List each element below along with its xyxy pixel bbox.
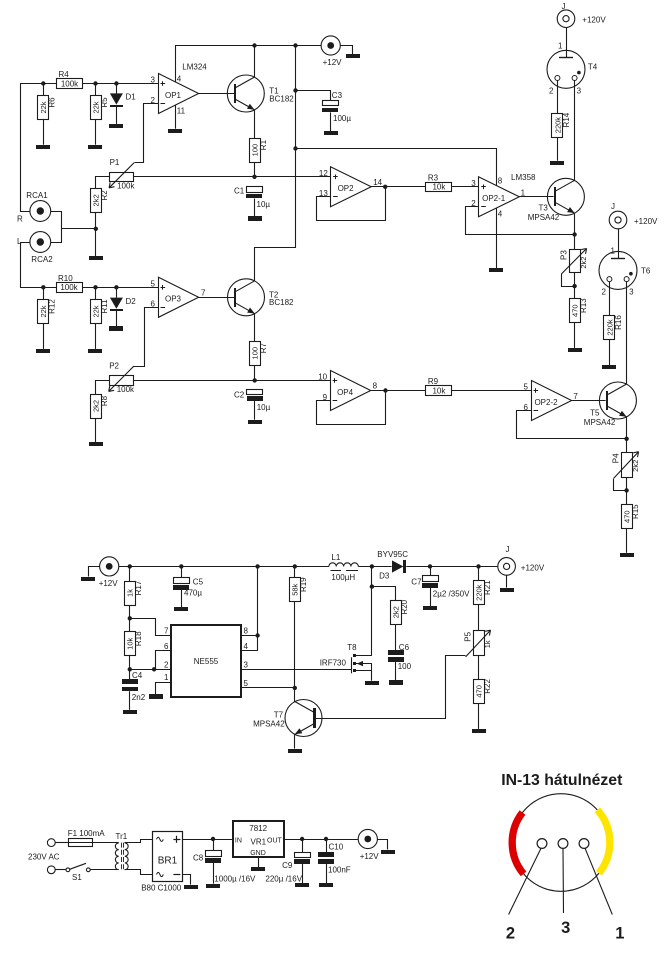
svg-text:J: J <box>611 202 615 211</box>
polarized capacitor C1 <box>246 187 263 199</box>
wire R9 to OP2-2 pin5 <box>452 390 531 392</box>
wire RCA2 shell drop <box>21 243 30 288</box>
junction R6 tap <box>41 81 45 85</box>
svg-text:1k: 1k <box>483 640 492 648</box>
wire OP2-2 feedback <box>517 411 627 439</box>
resistor R7 100 vertical <box>250 342 269 366</box>
op-amp OP1 (LM324) <box>159 74 199 114</box>
svg-text:1: 1 <box>611 247 616 256</box>
junction OP2 output <box>383 185 387 189</box>
nixie tube T4 (IN-13) <box>547 50 585 88</box>
wire P5 wiper to T7 base <box>316 656 466 719</box>
svg-text:+12V: +12V <box>99 579 119 588</box>
junction +12V rail to supply riser <box>293 43 297 47</box>
svg-text:OP1: OP1 <box>165 91 182 100</box>
wire OP2-1 feedback <box>466 207 575 235</box>
wire NE555 pin3 to T8 gate <box>241 669 351 671</box>
potentiometer P1 100k <box>109 158 135 191</box>
svg-text:3: 3 <box>471 179 476 188</box>
svg-text:LM324: LM324 <box>182 63 207 72</box>
connector RCA2 <box>30 232 51 253</box>
svg-text:B80 C1000: B80 C1000 <box>141 883 182 892</box>
svg-text:T7: T7 <box>274 711 284 720</box>
wire NE555 pin2 <box>130 669 171 671</box>
wire BR1 minus to ground <box>183 875 191 885</box>
svg-text:T8: T8 <box>347 643 357 652</box>
svg-text:470µ: 470µ <box>184 589 202 598</box>
wire junction to P3 <box>574 235 576 250</box>
potentiometer P3 2k2 <box>560 249 589 274</box>
polarized capacitor C8 <box>205 851 222 864</box>
svg-text:R2: R2 <box>100 190 109 201</box>
svg-text:5: 5 <box>244 679 249 688</box>
svg-text:OUT: OUT <box>267 837 283 844</box>
svg-text:R19: R19 <box>299 577 308 592</box>
ground OP1 pin 11 <box>168 129 182 133</box>
polarized capacitor C9 <box>294 853 311 865</box>
transistor Q T2 <box>228 279 265 316</box>
wire VR1 gnd lead <box>258 857 260 867</box>
svg-text:MPSA42: MPSA42 <box>584 418 616 427</box>
svg-text:100: 100 <box>398 662 412 671</box>
wire T7 emitter <box>294 735 296 749</box>
wire RCA1 center pin <box>51 212 62 229</box>
wire to R20 <box>372 587 396 601</box>
junction pin5/R19/T7 collector <box>293 686 297 690</box>
ground input network <box>89 256 103 260</box>
wire RCA pins to junction <box>61 228 96 230</box>
wire T8 drain riser <box>371 566 373 655</box>
svg-text:10µ: 10µ <box>257 403 271 412</box>
svg-text:3: 3 <box>577 86 582 95</box>
svg-text:4: 4 <box>498 210 503 219</box>
svg-text:2: 2 <box>549 86 554 95</box>
ground R14 <box>550 161 564 165</box>
resistor R9 10k horizontal <box>426 377 452 395</box>
inductor L1 100µH <box>329 563 358 567</box>
ground C4 <box>123 710 137 714</box>
junction P3 wiper tie <box>572 284 576 288</box>
wire C10 bottom lead <box>326 864 328 883</box>
svg-text:100k: 100k <box>117 385 135 394</box>
wire R3 to OP2-1 pin3 <box>452 186 479 188</box>
polarized capacitor C7 <box>422 576 439 589</box>
svg-text:100k: 100k <box>60 283 78 292</box>
terminal 230V neutral <box>47 866 55 874</box>
wire J to T4 pin1 <box>566 28 568 58</box>
svg-text:T3: T3 <box>539 204 549 213</box>
resistor R11 22k vertical <box>91 299 109 324</box>
connector X+12V top (+12V) <box>321 36 340 55</box>
svg-text:6: 6 <box>164 642 169 651</box>
svg-text:7812: 7812 <box>249 824 267 833</box>
svg-text:P1: P1 <box>110 158 120 167</box>
ground T7 emitter <box>288 749 302 753</box>
connector RCA1 <box>30 201 51 222</box>
wire T1 emitter lead <box>254 110 256 138</box>
svg-text:MPSA42: MPSA42 <box>528 213 560 222</box>
diode D3 BYV95C <box>392 560 403 572</box>
svg-text:2k2: 2k2 <box>631 460 640 472</box>
junction C10 tap <box>324 837 328 841</box>
junction T3 emitter/feedback/P3 <box>572 232 576 236</box>
wire connector to ground left <box>89 567 100 577</box>
svg-text:P2: P2 <box>109 362 119 371</box>
resistor R12 22k vertical <box>38 299 57 324</box>
svg-text:T5: T5 <box>590 409 600 418</box>
wire fuse to Tr1 primary <box>92 842 118 844</box>
wire T1 collector <box>254 46 256 78</box>
wire OP3 output to T2 base <box>199 297 236 299</box>
wire OP1 pin4 riser <box>175 46 177 83</box>
junction R7/C2 tap <box>253 378 257 382</box>
svg-text:R4: R4 <box>59 70 70 79</box>
svg-text:L: L <box>17 237 22 246</box>
transistor T8 IRF730 (MOSFET) <box>352 654 372 681</box>
junction R5 tap <box>93 81 97 85</box>
svg-text:7: 7 <box>164 627 169 636</box>
ground OP2-1 pin 4 <box>489 268 503 272</box>
ground R6 <box>36 145 50 149</box>
svg-text:2k2: 2k2 <box>579 257 588 269</box>
wire NE555 pin8/4 riser <box>257 566 259 651</box>
wire P5 to R22 <box>478 656 480 680</box>
junction R20 tap <box>370 584 374 588</box>
svg-text:2: 2 <box>164 660 169 669</box>
junction pin6/pin2 tie <box>152 667 156 671</box>
ground R5 <box>88 145 102 149</box>
svg-text:11: 11 <box>177 107 186 116</box>
resistor R8 2k2 vertical <box>91 395 110 419</box>
wire OP2-2 output to T5 base <box>572 400 606 402</box>
wire P4 to R15 <box>626 477 628 505</box>
junction C7 tap <box>428 564 432 568</box>
wire OP2-1 output to T3 base <box>519 196 553 198</box>
transistor Q T7 <box>285 700 322 737</box>
polarized capacitor C3 <box>322 101 339 113</box>
svg-text:4: 4 <box>177 75 182 84</box>
ground D2 <box>109 326 123 331</box>
svg-text:1: 1 <box>164 673 169 682</box>
ground VR1 GND <box>251 867 265 871</box>
wire P3 to R13 <box>574 273 576 299</box>
junction C3 branch <box>293 88 297 92</box>
wire R1 bottom lead <box>254 162 256 177</box>
wire J output to ground <box>506 575 508 587</box>
svg-text:Tr1: Tr1 <box>116 832 128 841</box>
svg-text:2: 2 <box>506 924 515 942</box>
wire C8 bottom lead <box>213 863 215 884</box>
wire D2 bottom lead <box>116 311 118 327</box>
resistor R10 100k horizontal <box>57 274 83 293</box>
pin hole 3 <box>558 839 568 849</box>
resistor R1 100 vertical <box>250 139 268 163</box>
wire R12 top lead <box>43 287 45 299</box>
svg-text:OP2-1: OP2-1 <box>482 194 506 203</box>
diode D2 <box>110 297 136 311</box>
wire R2 bottom lead <box>95 212 97 228</box>
wire C1 bottom lead <box>254 199 256 217</box>
junction C8 tap <box>211 837 215 841</box>
wire R8 bottom lead <box>95 418 97 442</box>
wire C5 top lead <box>181 566 183 577</box>
junction R11 tap <box>93 285 97 289</box>
junction OP4 output <box>383 388 387 392</box>
svg-text:C7: C7 <box>411 578 422 587</box>
ground C7 <box>423 606 437 610</box>
svg-text:T6: T6 <box>641 267 651 276</box>
pin 3 leader line <box>562 848 565 913</box>
ground R22 <box>472 729 486 733</box>
wire C2 bottom lead <box>254 401 256 420</box>
svg-text:+120V: +120V <box>634 217 658 226</box>
svg-text:2n2: 2n2 <box>132 693 146 702</box>
ground C9 <box>295 883 309 887</box>
transistor Q T5 <box>599 382 636 419</box>
wire T4 pin2 lead <box>557 80 559 113</box>
junction supply riser split <box>293 146 297 150</box>
wire R11 bottom lead <box>95 324 97 349</box>
transistor Q T1 <box>227 75 264 112</box>
svg-text:+12V: +12V <box>360 852 380 861</box>
wire C8 top lead <box>213 839 215 851</box>
wire T5 collector to T6 pin3 <box>626 282 628 385</box>
svg-text:R8: R8 <box>100 395 109 406</box>
wire R12 bottom lead <box>43 324 45 349</box>
yellow anode arc <box>597 810 610 873</box>
resistor R16 220k vertical <box>604 315 623 340</box>
svg-text:3: 3 <box>244 660 249 669</box>
ground NE555 pin 1 <box>149 694 163 699</box>
svg-text:10: 10 <box>318 372 327 381</box>
resistor R6 22k vertical <box>38 96 57 120</box>
svg-text:R22: R22 <box>483 679 492 694</box>
wire switch to Tr1 primary <box>90 869 119 871</box>
svg-text:2µ2 /350V: 2µ2 /350V <box>433 590 470 599</box>
resistor R15 470 vertical <box>622 504 641 529</box>
ground T8 source <box>365 681 379 685</box>
op-amp OP3 (LM324) <box>159 277 199 317</box>
wire +12V top rail <box>175 45 321 47</box>
wire R20 to C6 <box>395 624 397 650</box>
resistor R19 58k vertical <box>290 577 309 602</box>
svg-text:2: 2 <box>602 288 607 297</box>
resistor R3 10k horizontal <box>426 173 452 191</box>
wire C3 bottom lead <box>330 112 332 131</box>
wire R6 top lead <box>43 84 45 96</box>
svg-text:D3: D3 <box>379 572 390 581</box>
polarized capacitor C5 <box>173 578 190 591</box>
wire R21 to P5 <box>478 605 480 631</box>
resistor R22 470 vertical <box>474 679 492 704</box>
wire D1 bottom lead <box>116 107 118 124</box>
svg-text:VR1: VR1 <box>251 838 267 847</box>
wire junction to ground <box>95 229 97 256</box>
junction L1/D3/T8 drain <box>370 564 374 568</box>
junction T1 collector on +12V rail <box>252 43 256 47</box>
wire junction to NE555 pin7 <box>130 619 172 636</box>
resistor R18 10k vertical <box>125 631 144 656</box>
svg-text:IN: IN <box>235 837 242 844</box>
svg-text:C4: C4 <box>132 671 143 680</box>
wire OP1 output to T1 base <box>199 93 236 95</box>
svg-text:C8: C8 <box>193 854 204 863</box>
potentiometer P2 100k <box>109 362 135 395</box>
svg-text:7: 7 <box>573 392 578 401</box>
svg-text:T4: T4 <box>588 62 598 71</box>
svg-text:R7: R7 <box>259 343 268 354</box>
svg-text:+120V: +120V <box>521 563 545 572</box>
wire R14 bottom lead <box>557 137 559 161</box>
wire R5 top lead <box>95 84 97 96</box>
wire C5 bottom lead <box>181 590 183 608</box>
wire C9 top lead <box>302 839 304 852</box>
svg-text:MPSA42: MPSA42 <box>253 719 285 728</box>
svg-text:10k: 10k <box>432 386 446 395</box>
resistor R5 22k vertical <box>91 96 109 120</box>
wire R17 top lead <box>129 566 131 581</box>
svg-text:4: 4 <box>244 642 249 651</box>
wire NE555 pin1 to ground <box>156 683 172 695</box>
ground C6 <box>389 680 403 685</box>
capacitor C6 <box>388 650 404 662</box>
svg-text:C9: C9 <box>282 861 293 870</box>
svg-text:D1: D1 <box>126 93 137 102</box>
svg-text:12: 12 <box>319 169 328 178</box>
svg-text:R17: R17 <box>134 580 143 595</box>
svg-text:10k: 10k <box>432 183 446 192</box>
pin hole 2 <box>537 839 547 849</box>
ground supply +12V connector <box>81 577 95 581</box>
junction R21 tap <box>476 564 480 568</box>
svg-text:R6: R6 <box>48 97 57 108</box>
connector J +120V output (+120V) <box>498 558 516 576</box>
svg-text:1: 1 <box>558 42 563 51</box>
svg-text:5: 5 <box>151 279 156 288</box>
pin 2 leader line <box>509 848 541 914</box>
svg-text:R12: R12 <box>48 299 57 314</box>
wire R6 bottom lead <box>43 120 45 145</box>
svg-text:LM358: LM358 <box>511 173 536 182</box>
svg-text:100µ: 100µ <box>333 114 351 123</box>
ground R16 <box>602 365 616 369</box>
wire OP3 pin6 to P2 wiper <box>134 308 159 367</box>
wire SMPS rail after D3 <box>406 566 498 568</box>
diode D1 <box>110 93 136 107</box>
resistor R13 470 vertical <box>570 298 589 323</box>
pin hole 1 <box>579 839 589 849</box>
wire input rail2 to OP3 pin5 <box>20 287 158 289</box>
svg-text:1: 1 <box>615 924 624 942</box>
connector J anode T4 (+120V) <box>557 10 575 28</box>
svg-text:8: 8 <box>244 627 249 636</box>
wire junction to P4 <box>626 439 628 453</box>
svg-text:R5: R5 <box>100 97 109 108</box>
wire OP2-1 pin4 drop <box>496 208 498 268</box>
svg-text:R: R <box>17 215 23 224</box>
connector X+12V PSU output (+12V) <box>358 829 377 848</box>
svg-text:R16: R16 <box>614 315 623 330</box>
resistor R20 2k2 vertical <box>391 599 410 624</box>
wire R19 top lead <box>294 566 296 577</box>
svg-text:F1 100mA: F1 100mA <box>68 829 106 838</box>
ground C2 <box>248 420 262 424</box>
wire R13 bottom lead <box>574 323 576 348</box>
transformer Tr1 <box>115 843 128 871</box>
wire T5 emitter <box>626 417 628 439</box>
junction R1/C1 on P1 wire <box>252 175 256 179</box>
resistor R17 1k vertical <box>125 580 144 605</box>
wire NE555 pin4 <box>241 650 258 652</box>
connector X+12V supply input (+12V) <box>100 557 119 576</box>
junction pin8/pin4 riser <box>255 633 259 637</box>
connector J anode T6 (+120V) <box>609 211 627 229</box>
svg-text:3: 3 <box>629 288 634 297</box>
svg-text:BYV95C: BYV95C <box>377 550 408 559</box>
wire P1 right to OP2 pin12 <box>134 176 331 178</box>
svg-text:C5: C5 <box>193 578 204 587</box>
potentiometer P4 2k2 <box>612 452 641 479</box>
red cathode arc <box>512 813 523 874</box>
svg-text:RCA2: RCA2 <box>31 255 53 264</box>
svg-text:OP2-2: OP2-2 <box>534 398 558 407</box>
junction R17 tap <box>128 564 132 568</box>
wire Tr1 secondary top to BR1 <box>125 840 153 843</box>
wire R21 top lead <box>478 566 480 580</box>
op-amp OP2-2 (LM358) <box>532 381 572 421</box>
wire C6 bottom lead <box>395 662 397 681</box>
svg-text:5: 5 <box>524 383 529 392</box>
wire NE555 pin8 <box>241 635 258 637</box>
wire NE555 pin6 <box>156 651 172 670</box>
wire P2 left to R8 <box>96 381 110 395</box>
svg-text:C3: C3 <box>332 91 343 100</box>
svg-text:R14: R14 <box>562 112 571 127</box>
svg-text:100nF: 100nF <box>328 866 351 875</box>
wire R5 bottom lead <box>95 120 97 145</box>
wire NE555 pin5 <box>241 687 295 689</box>
svg-text:R9: R9 <box>428 377 439 386</box>
svg-text:+12V: +12V <box>323 58 343 67</box>
svg-text:8: 8 <box>498 177 503 186</box>
wire RCA2 center pin <box>51 229 62 243</box>
ground C3 <box>324 131 338 135</box>
svg-text:7: 7 <box>201 288 206 297</box>
wire left input drop to RCA1 <box>21 84 30 212</box>
wire neutral to switch <box>55 869 66 871</box>
ground PSU +12V connector <box>381 850 395 854</box>
nixie tube T6 (IN-13) <box>599 251 637 289</box>
svg-text:J: J <box>506 545 510 554</box>
fuse F1 100mA <box>69 839 93 847</box>
svg-text:P5: P5 <box>463 631 472 641</box>
wire J to T6 pin1 <box>618 229 620 258</box>
resistor R4 100k horizontal <box>57 70 83 88</box>
switch S1 <box>66 863 90 871</box>
resistor R21 220k vertical <box>474 580 492 605</box>
wire R16 bottom lead <box>609 340 611 366</box>
svg-text:BC182: BC182 <box>269 94 294 103</box>
ground R13 <box>568 348 582 352</box>
ground R8 <box>89 442 103 446</box>
svg-text:C2: C2 <box>234 391 245 400</box>
svg-text:P4: P4 <box>612 453 621 463</box>
svg-text:S1: S1 <box>72 873 82 882</box>
wire C4 bottom lead <box>129 691 131 710</box>
wire +12V SMPS rail <box>119 566 329 568</box>
ground C5 <box>174 607 188 611</box>
svg-text:R15: R15 <box>631 504 640 519</box>
